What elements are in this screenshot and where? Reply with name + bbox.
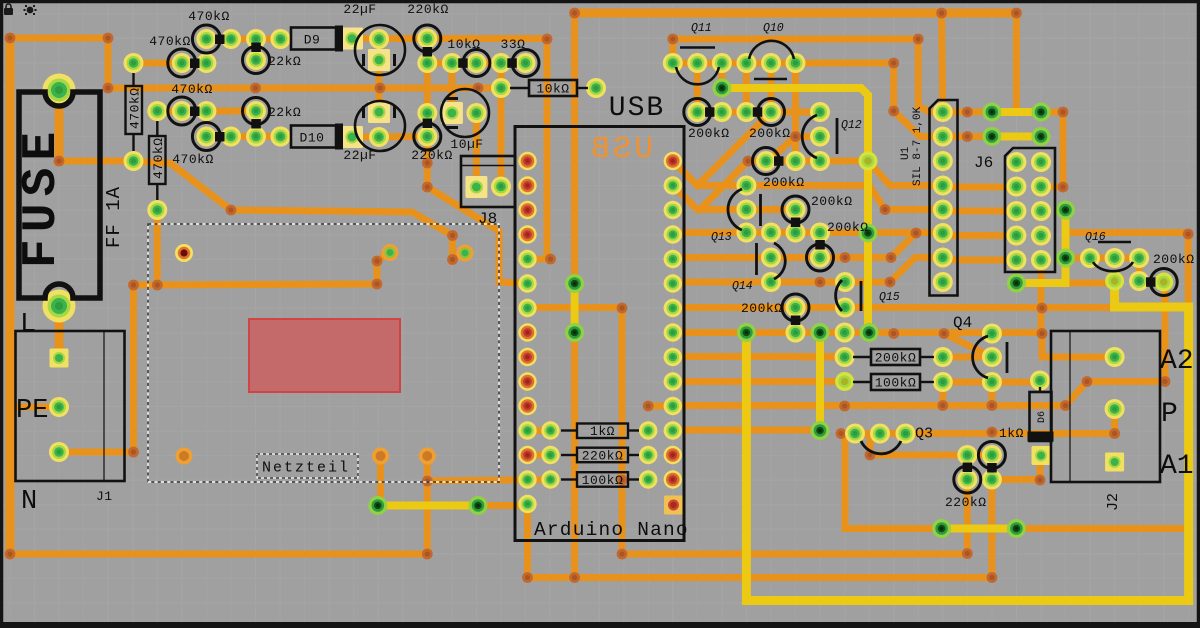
resistor 10k3 outline (463, 50, 490, 77)
via (473, 83, 484, 94)
pad row281 a (1105, 272, 1124, 291)
pad nano res3 a (639, 421, 657, 439)
wire row63 left cluster (134, 60, 207, 67)
wire row232 right (1066, 229, 1189, 236)
via (569, 572, 580, 583)
svg-text:Q4: Q4 (953, 314, 972, 332)
wire diag row185 to U1 pin5 (869, 186, 943, 210)
pad netz d (419, 448, 436, 465)
pad lone orange (176, 448, 193, 465)
via (1060, 400, 1071, 411)
pad nano R15 square (664, 496, 683, 515)
wire nano right row333 (673, 329, 869, 336)
wire diag q12 (768, 137, 796, 162)
pad U1 3 (933, 151, 953, 171)
connector J1 outline (16, 331, 125, 481)
pad J6 L1 (1006, 152, 1026, 172)
svg-text:Q12: Q12 (841, 119, 862, 132)
svg-text:200kΩ: 200kΩ (763, 175, 805, 190)
wire row283 right (1066, 280, 1115, 287)
wire P drop (1111, 409, 1118, 434)
transistor Q13 outline (728, 189, 742, 230)
via (422, 158, 433, 169)
pad 10kH right (586, 78, 606, 98)
wire row333 right (869, 329, 1042, 336)
pad q16 1 (1080, 248, 1100, 268)
wire nano right row430 (673, 427, 812, 434)
svg-text:470kΩ: 470kΩ (151, 137, 166, 179)
via (939, 328, 950, 339)
wire row307 (673, 304, 1113, 311)
pad D9 anode (271, 29, 291, 49)
svg-text:SIL 8-7 1,0K: SIL 8-7 1,0K (912, 106, 924, 186)
via (643, 401, 654, 412)
pad U1 5 (933, 200, 953, 220)
pad J1 L square (50, 349, 69, 368)
pad 220k1 (417, 29, 437, 49)
via (1011, 8, 1022, 19)
svg-text:Arduino Nano: Arduino Nano (534, 519, 689, 541)
pad q4 2 (982, 347, 1002, 367)
pad 100kH left (835, 372, 854, 391)
pad 100kH right (933, 372, 953, 392)
pad 10k3 a (466, 53, 486, 73)
via (103, 33, 114, 44)
wire row480 to D6 (992, 462, 1040, 480)
wire x133 vertical (130, 285, 137, 452)
pad Q row63 a (172, 53, 192, 73)
wire U1 to J6 row2 (950, 208, 1005, 215)
pad nano L3 (518, 201, 536, 219)
netzteil region dashed (148, 224, 499, 482)
pad q12 2 (810, 127, 830, 147)
pad row136 a (196, 127, 216, 147)
pad q10 3 (786, 53, 806, 73)
wire row63 middle (427, 60, 525, 67)
wire R2 down (154, 214, 161, 285)
pad yellow start (712, 79, 731, 98)
transistor Q11 outline (680, 46, 715, 49)
pad R1 top (124, 53, 144, 73)
svg-text:FF 1A: FF 1A (103, 186, 125, 248)
svg-text:200kΩ: 200kΩ (811, 194, 853, 209)
svg-text:USB: USB (609, 93, 665, 124)
transistor Q16 outline (1098, 241, 1131, 244)
pad 220k2 (417, 127, 437, 147)
wire y481 to nano (427, 480, 552, 482)
svg-text:USB: USB (588, 132, 653, 167)
transistor outline row111 (168, 97, 196, 125)
via (545, 254, 556, 265)
wire x452 vertical (448, 63, 455, 104)
pad nano L14 (518, 470, 536, 488)
pad row111 a (172, 101, 192, 121)
pad J1 PE (49, 397, 69, 417)
wire x992 drop (988, 480, 995, 578)
pad U1 4 (933, 176, 953, 196)
pad nano res2 c (541, 470, 559, 488)
via (617, 475, 628, 486)
pad netz c (372, 448, 389, 465)
via (743, 156, 754, 167)
svg-text:Q16: Q16 (1085, 231, 1106, 244)
wire top-left horizontal (10, 35, 108, 42)
pad J6 R1 (1031, 152, 1051, 172)
wire PE pad (10, 404, 59, 411)
pad nano R9 (664, 348, 682, 366)
wire U1 pin1 to yellow pair (943, 109, 992, 116)
pad q12 1 (810, 102, 830, 122)
resistor 22k2 outline (243, 98, 270, 125)
pad J6 pair a1 (982, 103, 1001, 122)
pad J6 pair b1 (982, 127, 1001, 146)
fuse F1 outline (19, 92, 100, 298)
pad yellow mid (859, 152, 878, 171)
wire x1017 top (1013, 13, 1020, 111)
wire row161 (748, 158, 868, 165)
via (840, 252, 851, 263)
wire nano y307 (528, 304, 623, 311)
svg-text:Q10: Q10 (763, 22, 784, 35)
wire U1 to J6 row3 (950, 232, 1005, 239)
wire x771 drop (768, 63, 775, 112)
svg-text:22µF: 22µF (343, 2, 376, 17)
pad q10 2 (761, 53, 781, 73)
bug icon (24, 5, 37, 15)
pad fuse top (43, 74, 76, 107)
svg-text:22kΩ: 22kΩ (268, 54, 301, 69)
pad nano R14 (664, 470, 682, 488)
transistor outline q257 (807, 244, 834, 271)
svg-text:D10: D10 (300, 131, 325, 146)
pad row112 d (761, 102, 781, 122)
pad J8 square (465, 176, 487, 198)
pad 33r b (516, 53, 536, 73)
wire row136 left cluster (206, 133, 280, 140)
pad nano R4 (664, 225, 682, 243)
pad row333 a (737, 323, 756, 342)
svg-text:33Ω: 33Ω (501, 37, 526, 52)
resistor 10kH body (529, 80, 577, 96)
wire nano row431 stub (528, 427, 553, 434)
pad row161 a (756, 151, 776, 171)
connector U1 outline (930, 100, 958, 296)
connector J8 outline (461, 156, 515, 207)
pad row63 c1 (417, 53, 437, 73)
pad q10 1 (736, 53, 756, 73)
via (250, 83, 261, 94)
wire y554 right (622, 551, 967, 558)
pad nano L6 (518, 274, 536, 292)
svg-text:L: L (20, 310, 36, 340)
pad yellow 220k b (1007, 519, 1026, 538)
svg-text:100kΩ: 100kΩ (875, 376, 917, 391)
via (839, 401, 850, 412)
pad netz b (457, 245, 474, 262)
svg-text:22kΩ: 22kΩ (268, 105, 301, 120)
pad row232 a (736, 223, 756, 243)
via (1037, 303, 1048, 314)
svg-text:200kΩ: 200kΩ (741, 301, 783, 316)
netzteil red courtyard (249, 319, 400, 392)
resistor 33R outline (512, 50, 539, 77)
via (1037, 328, 1048, 339)
wire nano diag row185 (673, 186, 796, 210)
pad row39 d (271, 29, 291, 49)
pad U1 7 (933, 248, 953, 268)
wire y528 left (845, 525, 942, 532)
pad J1 N (49, 442, 69, 462)
wire cap1 vertical (376, 60, 383, 112)
via (886, 252, 897, 263)
pad nano L2 (518, 176, 536, 194)
pad dark red lone (175, 244, 193, 262)
pad J2 A1 square (1105, 453, 1124, 472)
via (1082, 376, 1093, 387)
via (422, 182, 433, 193)
wire diag row161 to U1 pin4 (868, 161, 943, 186)
pad 10kH left (491, 78, 511, 98)
svg-text:1kΩ: 1kΩ (999, 426, 1024, 441)
svg-text:470kΩ: 470kΩ (149, 34, 191, 49)
pad J6 L5 (1006, 250, 1026, 270)
pad J6 R3 (1031, 201, 1051, 221)
wire q11 stub (669, 39, 676, 63)
wire x547 into nano (528, 39, 548, 260)
via (375, 83, 386, 94)
pad J2 A2 (1105, 347, 1125, 367)
pad J6 R2 (1031, 177, 1051, 197)
via (888, 58, 899, 69)
wire nano right row406 long (673, 282, 1165, 406)
pad C1 minus square (368, 49, 390, 71)
pad J6 R4 (1031, 226, 1051, 246)
pad q16 3 (1129, 248, 1149, 268)
svg-text:470kΩ: 470kΩ (171, 82, 213, 97)
via (962, 131, 973, 142)
wire yellow bottom pair (378, 502, 478, 510)
pad row111 b (196, 101, 216, 121)
via (888, 106, 899, 117)
svg-text:10kΩ: 10kΩ (447, 37, 480, 52)
pad yellow j6 a (1056, 201, 1075, 220)
wire nano right row381 (673, 378, 845, 385)
pad yellow 220k a (932, 519, 951, 538)
transistor outline q307 (782, 294, 809, 321)
pad 220k3 d (982, 470, 1002, 490)
wire diag row333 to q4 (944, 334, 992, 358)
pad row281 b (1129, 271, 1149, 291)
wire row282 (673, 258, 943, 283)
pad q4 3 (982, 372, 1002, 392)
pad D10 anode (271, 127, 291, 147)
transistor Q3 outline (861, 441, 901, 454)
pad yellow bottom b (469, 496, 488, 515)
pad row257 b (810, 248, 830, 268)
pad q11 1 (663, 53, 683, 73)
wire yellow J6 pair1 (992, 108, 1041, 116)
via (987, 400, 998, 411)
resistor 220k body (577, 448, 628, 463)
pad row307 a (786, 298, 806, 318)
wire yellow net1 top (722, 88, 868, 333)
wire row111 left cluster (157, 108, 256, 115)
pad row307 b (835, 298, 855, 318)
svg-text:Q13: Q13 (711, 231, 732, 244)
pad R2 top (147, 101, 167, 121)
svg-text:J1: J1 (96, 489, 113, 504)
pad J6 R5 (1031, 250, 1051, 270)
svg-text:220kΩ: 220kΩ (582, 449, 624, 464)
pad nano L8 (518, 323, 536, 341)
pad fuse bottom (43, 290, 76, 323)
wire nano right row357 (673, 353, 845, 360)
wire x893 to U1 pin2 (894, 63, 930, 137)
svg-text:J2: J2 (1105, 493, 1122, 511)
pad nano R13 (664, 446, 682, 464)
wire x795 drop (792, 63, 799, 161)
wire x968 drop (964, 480, 971, 554)
pad nano R11 (664, 397, 682, 415)
pad C3 minus square (441, 102, 463, 124)
resistor 22k1 outline (243, 47, 270, 74)
transistor Q12 outline (802, 115, 817, 158)
pad Q row39 a (196, 29, 216, 49)
pad U1 2 (933, 127, 953, 147)
svg-text:220kΩ: 220kΩ (411, 148, 453, 163)
pad row333 c (811, 323, 830, 342)
wire row257 (673, 233, 916, 258)
via (447, 254, 458, 265)
pad nano R10 (664, 372, 682, 390)
pad nano R3 (664, 201, 682, 219)
via (422, 476, 433, 487)
via (5, 549, 16, 560)
via (937, 400, 948, 411)
wire nano row455 stub (528, 452, 553, 459)
svg-text:J8: J8 (478, 210, 497, 228)
wire fuse vertical (55, 91, 64, 161)
svg-text:470kΩ: 470kΩ (172, 152, 214, 167)
wire x942 top to U1 pin1 (942, 13, 943, 112)
pad D6 square (1032, 446, 1051, 465)
pad nano R8 (664, 323, 682, 341)
transistor outline q112a (684, 99, 711, 126)
svg-text:A2: A2 (1160, 346, 1194, 377)
via (962, 107, 973, 118)
wire left edge vertical (6, 38, 15, 554)
pad J6 L4 (1006, 226, 1026, 246)
wire row39 left cluster (206, 36, 280, 43)
pad nano L10 (518, 372, 536, 390)
via (103, 83, 114, 94)
pad 220k3 b (982, 445, 1002, 465)
transistor Q15 outline (836, 280, 842, 311)
pad nano res3 c (639, 470, 657, 488)
pad nano R5 (664, 250, 682, 268)
transistor outline row136 (192, 123, 220, 151)
pad nano R7 (664, 299, 682, 317)
wire J6 right loop (1041, 112, 1063, 187)
via (447, 230, 458, 241)
wire 200k row357 (943, 354, 992, 361)
pad C2 minus square (368, 101, 390, 123)
via (542, 34, 553, 45)
pad J8 round (491, 177, 511, 197)
via (913, 34, 924, 45)
resistor R2 470k body (149, 136, 166, 184)
svg-text:P: P (1161, 399, 1178, 430)
wire fuse bottom to J1 (55, 306, 64, 352)
wire yellow q4 drop (816, 333, 824, 431)
resistor 220k2 outline (414, 123, 441, 150)
pad R1 bottom (124, 151, 144, 171)
wire x1188 drop (1185, 234, 1192, 303)
pad 10k3 b (491, 53, 511, 73)
wire row112 (697, 109, 820, 116)
svg-text:Q3: Q3 (915, 426, 933, 443)
pad D6 top (1030, 371, 1050, 391)
via (5, 33, 16, 44)
pad row282 a (761, 272, 781, 292)
pad row112 b (712, 102, 732, 122)
module Arduino Nano outline (515, 127, 684, 541)
pad q12 3 (810, 151, 830, 171)
pad J6 pair a2 (1032, 103, 1051, 122)
pad row161 b (786, 151, 806, 171)
via (888, 328, 899, 339)
pad J6 pair b2 (1032, 127, 1051, 146)
wire net D diagonal run (134, 162, 464, 260)
pad Q row39 b (221, 29, 241, 49)
transistor outline q200k5 (1150, 269, 1177, 296)
via (667, 34, 678, 45)
wire x697 drop (694, 63, 701, 112)
svg-text:10µF: 10µF (450, 137, 483, 152)
pad C2 plus (369, 127, 389, 147)
wire x622 lower (619, 308, 626, 554)
wire row232 to U1 (673, 229, 943, 236)
via (617, 549, 628, 560)
pad q3 2 (870, 424, 890, 444)
svg-text:1kΩ: 1kΩ (590, 424, 615, 439)
via (226, 205, 237, 216)
pad row232 c (786, 223, 806, 243)
wire x157 stub (154, 282, 161, 290)
via (54, 156, 65, 167)
wire U1 to J6 row1 (950, 184, 1005, 191)
wire fuse to R1 pad (59, 158, 134, 165)
pad nano L4 (518, 225, 536, 243)
transistor outline q112b (758, 99, 785, 126)
pad row232 d (810, 223, 830, 243)
pad row136 b (221, 127, 241, 147)
via (1160, 376, 1171, 387)
svg-text:200kΩ: 200kΩ (875, 351, 917, 366)
svg-text:10kΩ: 10kΩ (536, 82, 569, 97)
pad 22k1 (246, 50, 266, 70)
via (1109, 428, 1120, 439)
wire x845 drop (842, 434, 849, 529)
pad netz a (382, 244, 399, 261)
via (790, 131, 801, 142)
wire x918 to U1 pin1 (918, 39, 943, 112)
diode D6 outline (1030, 392, 1052, 441)
wire x746 drop (743, 63, 750, 112)
svg-text:200kΩ: 200kΩ (749, 126, 791, 141)
wire row357 left stub (805, 354, 845, 361)
pad row136 d (271, 127, 291, 147)
